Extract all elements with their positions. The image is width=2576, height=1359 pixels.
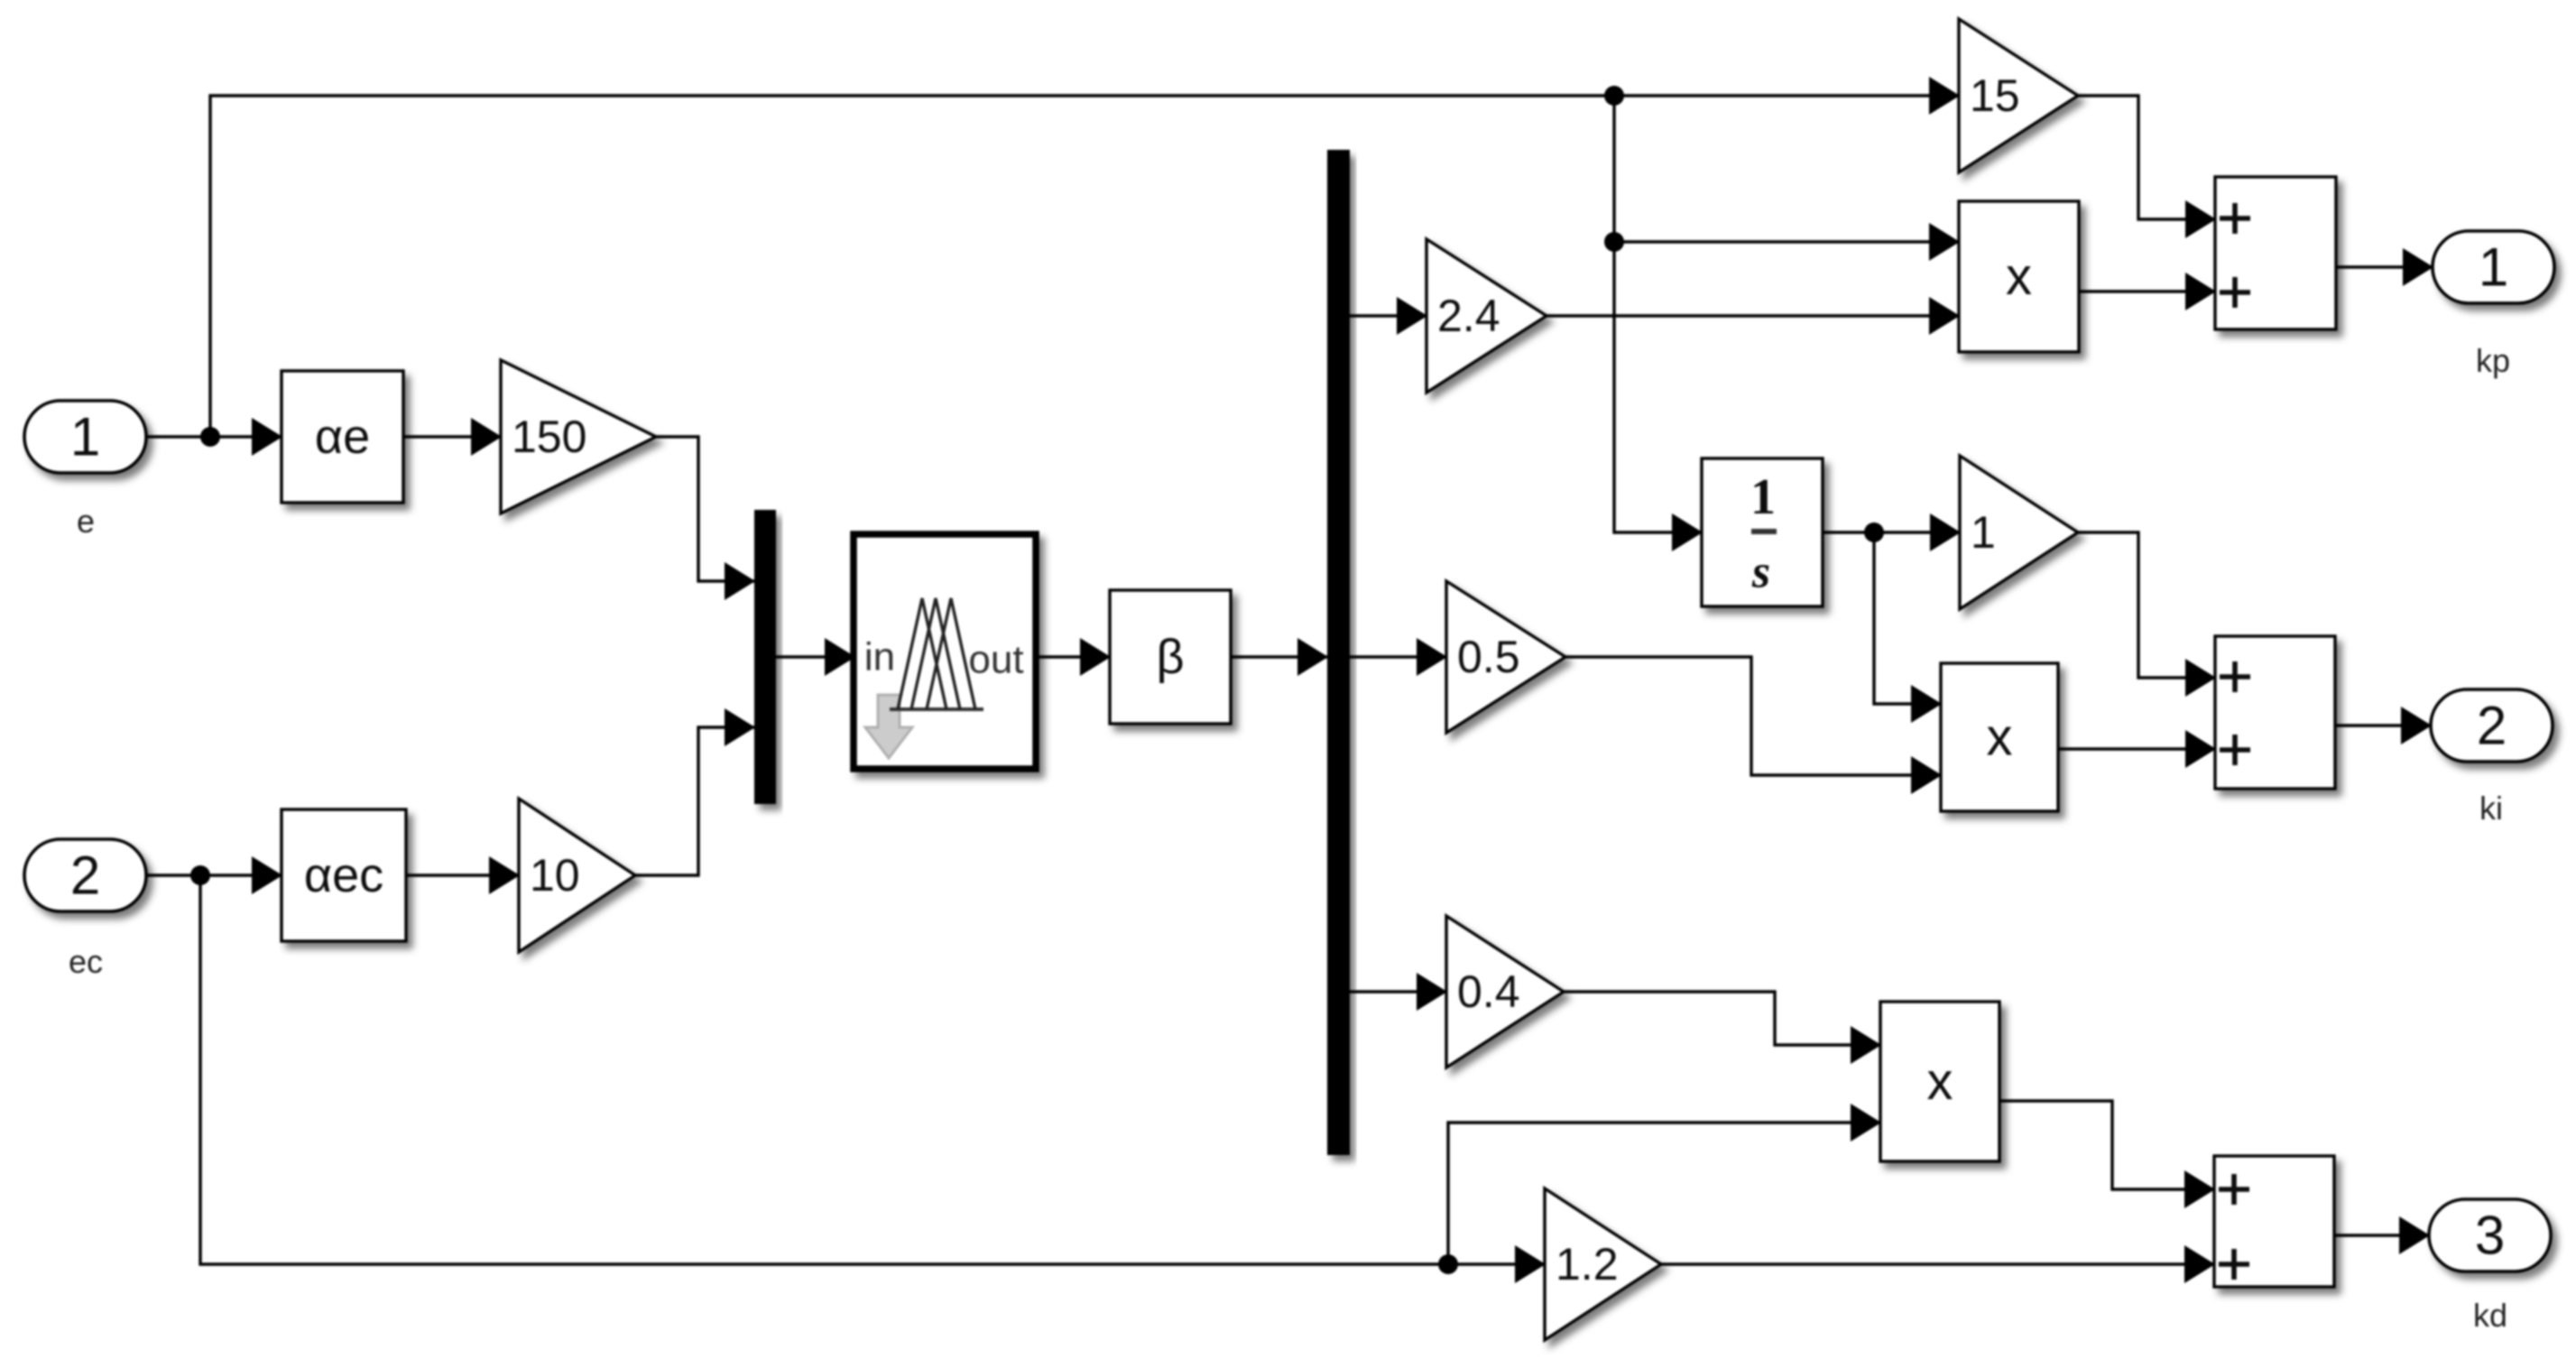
wire gain 1 to sum ki input 1 [2078,532,2215,678]
wire aec to gain 10 [406,874,519,876]
svg-text:kd: kd [2473,1297,2507,1334]
wire sum ki to output port 2 [2335,724,2431,726]
svg-text:10: 10 [530,850,580,901]
svg-text:0.4: 0.4 [1457,966,1520,1017]
node junction on top wire [1604,86,1624,106]
block beta [1110,590,1231,724]
svg-text:2: 2 [2477,696,2507,756]
wire demux output 1 to gain 2.4 [1350,314,1426,317]
wire e branch down to integrator 1/s [1614,242,1702,532]
wire gain 10 to mux input 2 [635,727,754,875]
port input 1 e [24,401,146,473]
svg-text:αe: αe [315,410,370,464]
wire integrator to gain 1 [1823,531,1960,533]
wire ec branch down to bottom rail [200,875,1545,1264]
svg-text:1: 1 [1750,469,1776,525]
svg-text:3: 3 [2475,1206,2505,1266]
svg-text:x: x [2006,247,2032,306]
gain 1 [1960,456,2078,609]
wire beta to demux [1231,655,1327,658]
wire sum kd to output port 3 [2334,1234,2429,1236]
svg-text:1: 1 [1971,507,1996,558]
wire e branch to product kp input 1 [1614,96,1959,242]
wire fuzzy controller to beta [1036,655,1110,658]
integrator 1/s [1702,458,1823,606]
node junction on e wire [200,427,220,447]
wire port e to gain block ae [146,435,282,438]
node junction after integrator [1864,522,1884,542]
port input 2 ec [24,839,146,911]
wire gain 1.2 to sum kd input 2 [1661,1262,2214,1265]
svg-text:150: 150 [512,411,586,462]
product ki path [1941,663,2058,811]
fuzzy logic controller [854,534,1036,769]
wire e branch up and across top to gain 15 [210,96,1959,437]
port output 2 ki [2431,689,2553,762]
wire gain 150 to mux input 1 [656,437,754,581]
svg-text:0.5: 0.5 [1457,632,1520,682]
block ae [282,371,403,503]
svg-text:x: x [1987,708,2013,767]
wire product kp to sum kp input 2 [2079,290,2215,292]
wire demux output 3 to gain 0.4 [1350,990,1446,993]
wire gain 15 to sum kp input 1 [2078,96,2215,219]
svg-text:x: x [1927,1052,1953,1111]
svg-text:out: out [968,638,1023,682]
svg-text:2: 2 [70,846,100,906]
gain 2.4 [1426,239,1547,393]
sum kp [2215,177,2336,329]
node junction above product kp [1604,232,1624,252]
port output 3 kd [2429,1199,2551,1271]
wire demux output 2 to gain 0.5 [1350,655,1446,658]
gain 15 [1959,19,2078,172]
demux bar [1327,150,1350,1155]
svg-text:1: 1 [2479,237,2508,298]
wire port ec to gain block aec [146,874,282,876]
svg-text:1: 1 [70,407,100,467]
gain 150 [501,360,656,513]
svg-text:s: s [1751,547,1770,598]
sum kd [2214,1156,2334,1287]
wire sum kp to output port 1 [2336,265,2433,268]
wire mux to fuzzy controller [776,655,854,658]
svg-text:β: β [1156,630,1184,684]
svg-text:ec: ec [69,943,103,980]
svg-text:2.4: 2.4 [1437,291,1500,341]
product kd path [1880,1002,1999,1161]
gain 10 [519,799,635,952]
wire gain 2.4 to product kp input 2 [1547,314,1959,317]
sum ki [2215,636,2335,789]
node junction on bottom rail [1438,1254,1458,1274]
gain 0.5 [1446,581,1565,733]
wire product kd to sum kd input 1 [1999,1101,2214,1189]
svg-text:αec: αec [304,848,383,902]
wire gain 0.4 to product kd input 1 [1564,992,1880,1045]
node junction on ec wire [190,865,210,885]
svg-text:e: e [77,503,95,540]
svg-text:1.2: 1.2 [1556,1239,1619,1290]
svg-text:15: 15 [1970,70,2020,121]
product kp path [1959,201,2079,352]
wire bottom rail branch to product kd input 2 [1448,1123,1880,1264]
svg-text:ki: ki [2479,790,2503,827]
mux bar [754,510,776,804]
gain 0.4 [1446,916,1564,1068]
wire gain 0.5 to product ki input 2 [1565,657,1941,775]
gain 1.2 [1545,1188,1661,1340]
svg-text:in: in [864,635,895,679]
wire product ki to sum ki input 2 [2058,747,2215,750]
svg-text:kp: kp [2476,342,2510,379]
port output 1 kp [2433,231,2554,303]
block aec [282,809,406,941]
wire ae to gain 150 [403,435,501,438]
wire integrator branch to product ki input 1 [1874,532,1941,704]
